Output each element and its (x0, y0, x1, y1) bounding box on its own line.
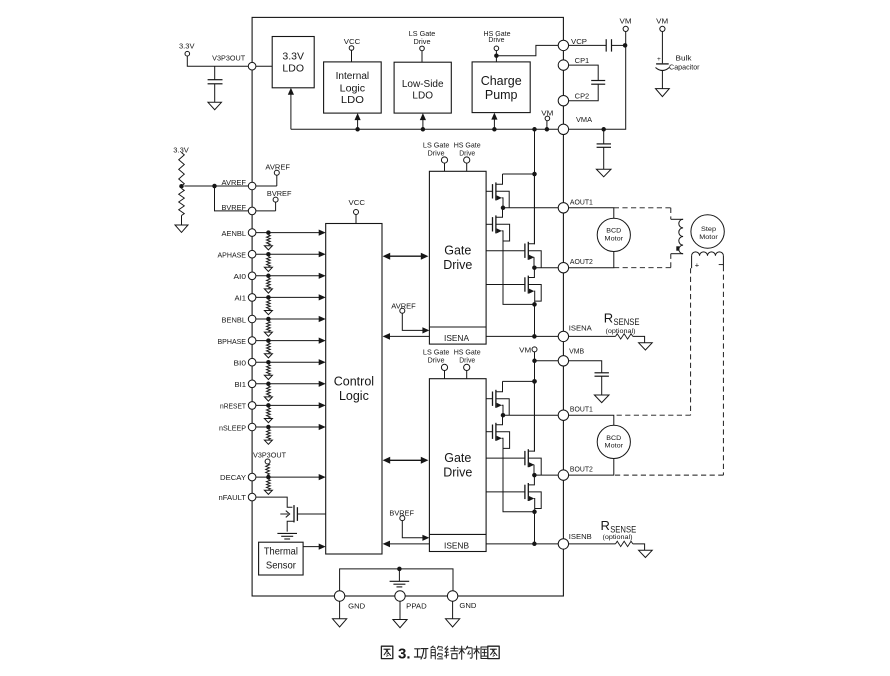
ground arrow PPAD (393, 620, 407, 628)
svg-text:CP1: CP1 (575, 56, 590, 65)
junction sense link bridge A (532, 302, 537, 307)
bus control logic to gate drive A (388, 255, 423, 257)
dashed winding B to BOUT1 (690, 268, 692, 415)
svg-text:Drive: Drive (414, 37, 431, 46)
wire body M1 to AOUT1 (496, 191, 509, 208)
pulldown resistor BI0 (267, 365, 271, 375)
transistor M2 low-side AOUT1 (492, 217, 494, 231)
ground VMB cap (594, 395, 609, 403)
wire gate M1 bridge B (486, 398, 492, 400)
wire sense link bridge B (503, 511, 535, 513)
wire drain M1 to VM rail bridge B (496, 381, 503, 391)
svg-text:BOUT2: BOUT2 (570, 465, 593, 474)
svg-text:BCD: BCD (606, 228, 621, 235)
wire body M3 to BOUT2 (528, 458, 541, 475)
pulldown resistor AENBL (267, 235, 271, 245)
wire source M4 to sense link bridge A (533, 291, 536, 304)
CP1-CP2 flying capacitor (569, 65, 599, 80)
wire body M4 bridge A (528, 285, 541, 302)
transistor M4 low-side BOUT2 (524, 485, 526, 499)
svg-text:ISENB: ISENB (444, 542, 470, 551)
transistor M1 high-side BOUT1 (492, 392, 494, 406)
junction VM rail bridge A (532, 172, 537, 177)
VMA decoupling capacitor (603, 129, 605, 144)
transistor M4 low-side AOUT2 (524, 277, 526, 291)
svg-text:Gate: Gate (444, 451, 471, 465)
svg-text:Drive: Drive (459, 356, 475, 365)
transistor M2 low-side BOUT1 (492, 425, 494, 439)
svg-text:VCC: VCC (349, 198, 366, 207)
svg-text:VMB: VMB (569, 346, 584, 355)
Gate Drive block (ISENB) (429, 379, 486, 552)
svg-text:Drive: Drive (428, 356, 445, 365)
pin VCP (558, 40, 568, 50)
svg-text:3.3V: 3.3V (282, 51, 304, 63)
Charge Pump block (472, 62, 530, 113)
wire source M3 to AOUT2 (533, 257, 535, 267)
internal ground bus (340, 569, 453, 591)
Step Motor (691, 215, 724, 248)
wire gate M4 bridge B (486, 491, 525, 493)
svg-text:V3P3OUT: V3P3OUT (253, 451, 287, 460)
svg-text:Logic: Logic (339, 389, 369, 403)
Gate Drive block (ISENA) (429, 171, 486, 344)
wire body M3 to AOUT2 (528, 251, 541, 268)
wire BI0 to control logic (256, 361, 320, 363)
wire APHASE to control logic (256, 253, 320, 255)
pin ISENB (558, 539, 568, 549)
ground RSENSE B (639, 550, 653, 557)
pin AOUT2 (558, 263, 568, 273)
wire BOUT1 (503, 414, 558, 416)
wire body M1 to BOUT1 (496, 399, 509, 416)
wire body M2 bridge B (496, 432, 510, 449)
svg-text:BVREF: BVREF (267, 189, 292, 198)
wire AI0 to control logic (256, 275, 320, 277)
svg-text:AOUT2: AOUT2 (570, 257, 593, 266)
svg-text:Logic: Logic (340, 84, 366, 95)
svg-text:AOUT1: AOUT1 (570, 197, 593, 206)
BCD Motor B (597, 425, 630, 458)
pin VMB (558, 356, 568, 366)
pulldown resistor BI1 (267, 386, 271, 396)
svg-text:VM: VM (620, 16, 632, 25)
svg-text:LDO: LDO (341, 95, 364, 106)
svg-text:Low-Side: Low-Side (402, 79, 444, 90)
wire BOUT2 (534, 474, 558, 476)
Thermal Sensor block (259, 542, 304, 575)
transistor M1 high-side AOUT1 (492, 184, 494, 198)
svg-text:VCP: VCP (571, 37, 587, 46)
svg-text:nRESET: nRESET (220, 402, 247, 411)
wire gate M2 bridge B (486, 431, 492, 433)
VMB decoupling capacitor (569, 361, 602, 373)
ground VMA cap (596, 169, 611, 177)
wire drain M4 to AOUT2 (528, 268, 534, 278)
pulldown resistor DECAY (267, 480, 271, 490)
svg-text:BOUT1: BOUT1 (570, 405, 593, 414)
arrow feed to Low-Side LDO (421, 127, 426, 132)
wire VM down to VMA line (569, 32, 626, 130)
svg-text:Sensor: Sensor (266, 561, 297, 572)
ground arrow GND left (333, 619, 347, 627)
wire source M2 to sense link bridge B (502, 438, 503, 512)
wire ISENA to control logic (389, 335, 430, 337)
svg-text:BI1: BI1 (235, 380, 247, 389)
wire AENBL to control logic (256, 232, 320, 234)
wire source M4 to sense link bridge B (533, 499, 536, 512)
arrow feed to 3.3V LDO (290, 94, 292, 130)
wire drain M4 to BOUT2 (528, 475, 534, 485)
wire AI1 to control logic (256, 296, 320, 298)
capacitor on V3P3OUT net (214, 66, 216, 80)
transistor M3 high-side AOUT2 (524, 244, 526, 258)
svg-text:VM: VM (519, 345, 531, 354)
wire drain M2 to AOUT1 (496, 208, 503, 218)
wire gate M4 bridge A (486, 284, 525, 286)
svg-text:LDO: LDO (282, 63, 304, 75)
svg-text:(optional): (optional) (603, 534, 633, 541)
svg-text:Motor: Motor (605, 443, 624, 450)
pin CP2 (558, 96, 568, 106)
svg-text:3.3V: 3.3V (179, 42, 195, 51)
wire source M1 to BOUT1 (502, 405, 503, 415)
pin BOUT1 (558, 410, 568, 420)
junction sense link bridge B (532, 510, 537, 515)
wire nSLEEP to control logic (256, 426, 320, 428)
svg-text:Drive: Drive (459, 148, 475, 157)
wire VM to VMB (535, 360, 559, 362)
svg-text:ISENA: ISENA (444, 334, 470, 343)
wire VCP to HS Gate Drive node (496, 45, 558, 55)
signal ground fault transistor (277, 532, 297, 534)
svg-text:nSLEEP: nSLEEP (219, 423, 246, 432)
svg-text:BENBL: BENBL (222, 315, 247, 324)
wire BPHASE to control logic (256, 340, 320, 342)
pin AOUT1 (558, 203, 568, 213)
svg-text:BCD: BCD (606, 435, 621, 442)
Low-Side LDO block (394, 62, 451, 113)
svg-text:Charge: Charge (481, 74, 522, 88)
pulldown resistor nRESET (267, 408, 271, 418)
3.3V LDO U-block (272, 37, 314, 88)
svg-text:CP2: CP2 (575, 91, 590, 100)
BCD Motor A (597, 218, 630, 251)
VCP-VM capacitor (569, 44, 607, 46)
svg-text:Capacitor: Capacitor (669, 64, 700, 71)
wire BENBL to control logic (256, 318, 320, 320)
signal ground on bus (398, 569, 400, 581)
Control Logic block (326, 224, 382, 555)
svg-text:LDO: LDO (412, 90, 433, 101)
svg-text:Control: Control (334, 375, 374, 389)
wire BI1 to control logic (256, 383, 320, 385)
arrow feed to Internal Logic LDO (355, 127, 360, 132)
svg-text:nFAULT: nFAULT (219, 493, 247, 502)
arrow feed to Charge Pump (492, 127, 497, 132)
svg-text:PPAD: PPAD (406, 602, 427, 611)
svg-text:+: + (695, 260, 700, 269)
svg-text:Pump: Pump (485, 88, 518, 102)
pin CP1 (558, 60, 568, 70)
ground bulk capacitor (656, 89, 670, 97)
junction node AOUT1 (501, 206, 506, 211)
ground divider (175, 225, 188, 232)
svg-text:Drive: Drive (488, 35, 504, 44)
wire nFAULT to fault transistor (256, 497, 293, 507)
pin BOUT2 (558, 470, 568, 480)
svg-text:3.: 3. (398, 645, 411, 662)
bulk capacitor (661, 32, 663, 64)
wire body M2 bridge A (496, 224, 510, 241)
Internal Logic LDO block (324, 62, 382, 113)
svg-text:+: + (657, 56, 661, 63)
winding A coil (671, 218, 683, 220)
dashed winding A loop (614, 207, 671, 209)
junction node BOUT2 (532, 473, 537, 478)
svg-text:Drive: Drive (443, 466, 472, 480)
svg-text:Drive: Drive (428, 148, 445, 157)
svg-text:Gate: Gate (444, 244, 471, 258)
wire 3.3V to V3P3OUT (187, 56, 248, 66)
svg-text:BI0: BI0 (234, 359, 247, 368)
junction VM rail bridge B (532, 379, 537, 384)
wire drain M3 to VM rail bridge A (528, 174, 534, 244)
pin VMA (558, 124, 568, 134)
pulldown resistor AI1 (267, 300, 271, 310)
ground RSENSE A (639, 343, 653, 350)
svg-text:Step: Step (701, 226, 716, 233)
pull-up resistor DECAY (266, 464, 270, 475)
wire drain M3 to VM rail bridge B (528, 381, 534, 451)
svg-text:VMA: VMA (576, 115, 592, 124)
VM feed rail (291, 128, 558, 130)
ground arrow GND right (446, 619, 460, 627)
svg-text:BVREF: BVREF (222, 203, 247, 212)
svg-text:AVREF: AVREF (222, 178, 247, 187)
pin GND left (334, 591, 344, 601)
svg-text:SENSE: SENSE (614, 317, 640, 327)
BVREF tap (215, 186, 249, 211)
wire gate M1 bridge A (486, 190, 492, 192)
wire drain M2 to BOUT1 (496, 415, 503, 425)
wire V3P3OUT to 3.3V LDO (256, 65, 273, 67)
svg-text:3.3V: 3.3V (173, 145, 189, 154)
svg-text:Thermal: Thermal (264, 546, 298, 557)
wire AOUT2 (534, 267, 558, 269)
caption: Figure 3 functional block diagram (381, 646, 392, 658)
svg-text:BPHASE: BPHASE (218, 337, 247, 346)
svg-text:ISENA: ISENA (569, 323, 592, 332)
junction node AOUT2 (532, 265, 537, 270)
bus control logic to gate drive B (388, 459, 423, 461)
svg-text:AVREF: AVREF (265, 162, 290, 171)
svg-text:Motor: Motor (699, 234, 718, 241)
wire gate M3 bridge B (486, 457, 525, 459)
wire AOUT1 (503, 207, 558, 209)
wire nRESET to control logic (256, 404, 320, 406)
svg-text:R: R (604, 310, 613, 325)
svg-text:APHASE: APHASE (218, 251, 247, 260)
pulldown resistor AI0 (267, 278, 271, 288)
wire divider to AVREF (184, 185, 248, 187)
wire body M4 bridge B (528, 492, 541, 509)
wire drain M1 to VM rail bridge A (496, 174, 503, 184)
junction sense line bridge B (532, 542, 537, 547)
pulldown resistor BENBL (267, 321, 271, 331)
fault transistor Q1 (open-drain) (293, 505, 295, 522)
wire gate M2 bridge A (486, 223, 492, 225)
svg-text:DECAY: DECAY (220, 473, 246, 482)
svg-text:ISENB: ISENB (569, 532, 592, 541)
VM rail to bridge A (532, 127, 537, 132)
svg-text:R: R (601, 518, 610, 533)
svg-text:AI1: AI1 (235, 294, 247, 303)
wire source M3 to BOUT2 (533, 465, 535, 475)
svg-text:VM: VM (656, 16, 668, 25)
junction sense line bridge A (532, 334, 537, 339)
svg-text:VCC: VCC (344, 37, 361, 46)
pulldown resistor nSLEEP (267, 429, 271, 439)
pin GND right (447, 591, 457, 601)
ground V3P3OUT cap (208, 102, 222, 109)
pin PPAD (395, 591, 405, 601)
wire sense link bridge A (503, 303, 535, 305)
arrow thermal sensor to control logic (303, 546, 319, 548)
wire gate M3 bridge A (486, 250, 525, 252)
wires BOUT to BCD motor B (569, 415, 614, 425)
wire ISENA line (486, 335, 558, 337)
svg-text:V3P3OUT: V3P3OUT (212, 53, 246, 62)
wire source M1 to AOUT1 (502, 198, 503, 208)
wires AOUT to BCD motor A (569, 208, 614, 219)
svg-text:Motor: Motor (605, 235, 624, 242)
transistor M3 high-side BOUT2 (524, 451, 526, 465)
wire source M2 to sense link bridge A (502, 231, 503, 305)
svg-text:Bulk: Bulk (676, 56, 693, 63)
wire ISENB line (486, 543, 558, 545)
svg-text:GND: GND (348, 601, 365, 610)
svg-text:GND: GND (459, 601, 476, 610)
wire ISENB to control logic (389, 543, 430, 545)
pulldown resistor BPHASE (267, 343, 271, 353)
junction node BOUT1 (501, 413, 506, 418)
pulldown resistor APHASE (267, 257, 271, 267)
svg-text:AENBL: AENBL (222, 229, 247, 238)
svg-text:AI0: AI0 (234, 272, 247, 281)
dashed winding B to BOUT2 (722, 266, 724, 475)
winding B coil (692, 252, 724, 256)
svg-text:Internal: Internal (336, 71, 370, 82)
pin ISENA (558, 331, 568, 341)
svg-text:Drive: Drive (443, 258, 472, 272)
chip boundary (252, 17, 563, 596)
polarity mark winding A (676, 246, 679, 250)
